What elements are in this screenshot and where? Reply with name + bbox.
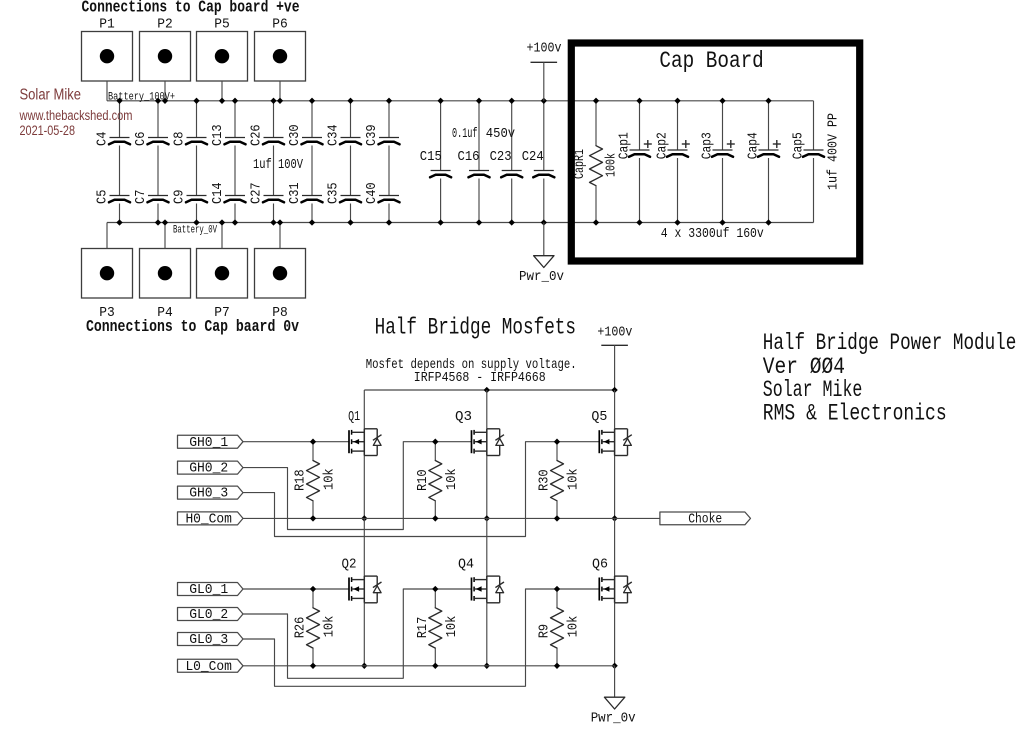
wire rail to capacitor Cap4 (768, 101, 770, 150)
wire pad x=165 to +ve bus (164, 81, 166, 101)
wire +100v rail to mosfet drains (364, 389, 614, 391)
svg-text:450v: 450v (486, 126, 515, 142)
transistor Q5 (N-MOSFET) (591, 409, 631, 455)
svg-text:C6: C6 (133, 132, 149, 146)
junction at (435.3,665.8) (433, 663, 439, 669)
svg-text:C16: C16 (458, 149, 480, 165)
svg-text:10k: 10k (444, 468, 460, 490)
capacitor C8 (171, 132, 207, 146)
svg-text:GH0_1: GH0_1 (189, 435, 228, 451)
capacitor C35 (325, 182, 361, 204)
junction at (511.7,100.8) (509, 98, 515, 104)
junction at (677.5,222.5) (675, 220, 681, 226)
capacitor C6 (133, 132, 169, 146)
capacitor C13 (210, 124, 246, 146)
capacitor C24 (522, 149, 555, 177)
wire C40 to 0v bus (388, 204, 390, 223)
svg-text:Cap5: Cap5 (791, 132, 807, 159)
net Battery_0V bus wire (107, 222, 814, 224)
wire bus to pad P3 (106, 223, 108, 249)
pad P7 (197, 249, 248, 299)
junction at (312,222.5) (309, 220, 315, 226)
wire C15 to 0v bus (440, 179, 442, 223)
svg-text:C24: C24 (522, 149, 544, 165)
junction at (222,100.8) (219, 98, 225, 104)
wire C16 to 0v bus (478, 179, 480, 223)
svg-text:P1: P1 (99, 17, 115, 33)
junction at (768.5,100.8) (766, 98, 772, 104)
pad P3 (82, 249, 133, 299)
svg-text:C13: C13 (210, 124, 226, 146)
svg-text:Cap1: Cap1 (617, 132, 633, 159)
wire drain column x=614.6 (high side) (614, 390, 616, 429)
junction at (313,665.8) (310, 663, 316, 669)
pad P8 (255, 249, 306, 299)
wire GH0_2 to Q3 gate (routed) (243, 442, 472, 530)
svg-text:GL0_3: GL0_3 (189, 632, 228, 648)
input net flag GH0_3 (178, 486, 244, 502)
resistor R18 10k (293, 442, 338, 519)
svg-text:2021-05-28: 2021-05-28 (20, 123, 76, 138)
svg-text:R17: R17 (415, 617, 431, 639)
junction at (677.5,100.8) (675, 98, 681, 104)
wire C8 to C9 (196, 146, 198, 196)
wire GH0_3 to Q5 gate (routed) (243, 442, 599, 537)
pad P6 (255, 32, 306, 82)
junction at (389,100.8) (386, 98, 392, 104)
transistor Q6 (N-MOSFET) (592, 556, 632, 602)
wire C30 to C31 (311, 146, 313, 196)
wire Cap1 to bottom rail (639, 158, 641, 223)
svg-text:C8: C8 (171, 132, 187, 146)
svg-text:C40: C40 (364, 182, 380, 204)
svg-text:Q3: Q3 (455, 409, 472, 425)
svg-text:Half Bridge Mosfets: Half Bridge Mosfets (375, 315, 576, 341)
wire C35 to 0v bus (350, 204, 352, 223)
svg-text:Battery_0V: Battery_0V (173, 224, 217, 236)
junction at (196.5,222.5) (194, 220, 200, 226)
junction at (435.3,441.7) (433, 439, 439, 445)
svg-text:C14: C14 (210, 182, 226, 204)
wire column x=273.5 (bus to C26) (273, 101, 275, 138)
junction at (486.8,665.8) (484, 663, 490, 669)
wire GH0_1 to Q1 gate (243, 441, 349, 443)
junction at (280,222.5) (277, 220, 283, 226)
+100v supply symbol at (543.8,62.3) (527, 41, 562, 101)
junction at (313,441.7) (310, 439, 316, 445)
transistor Q1 (N-MOSFET) (348, 409, 381, 455)
capacitor C5 (94, 190, 130, 204)
svg-text:C4: C4 (94, 132, 110, 146)
svg-text:P2: P2 (157, 17, 173, 33)
junction at (273.5,222.5) (271, 220, 277, 226)
junction at (479,222.5) (476, 220, 482, 226)
capacitor C30 (287, 124, 323, 146)
wire pad x=222 to +ve bus (221, 81, 223, 101)
input net flag H0_Com (178, 512, 244, 528)
capacitor C15 (420, 149, 451, 177)
wire column x=312 (bus to C30) (311, 101, 313, 138)
junction at (639.5,100.8) (637, 98, 643, 104)
junction at (235,100.8) (232, 98, 238, 104)
svg-text:R26: R26 (293, 617, 309, 639)
svg-text:H0_Com: H0_Com (185, 512, 232, 528)
wire drain column x=364.3 (low side) (363, 518, 365, 576)
wire C34 to C35 (350, 146, 352, 196)
input net flag L0_Com (178, 659, 244, 675)
wire C39 to C40 (388, 146, 390, 196)
capacitor C14 (210, 182, 246, 204)
svg-text:R18: R18 (293, 469, 309, 491)
wire bus to capacitor C15 (440, 101, 442, 171)
wire source column x=486.8 to H0_Com (486, 456, 488, 519)
capacitor C9 (171, 190, 207, 204)
svg-text:0.1uf: 0.1uf (452, 126, 478, 142)
wire C7 to 0v bus (157, 204, 159, 223)
capacitor C39 (364, 124, 400, 146)
wire Cap4 to bottom rail (768, 158, 770, 223)
svg-text:C34: C34 (325, 124, 341, 146)
input net flag GL0_1 (178, 582, 244, 598)
wire C27 to 0v bus (273, 204, 275, 223)
svg-text:C31: C31 (287, 182, 303, 204)
wire rail to capacitor Cap2 (677, 101, 679, 150)
wire source column x=614.6 to H0_Com (614, 456, 616, 519)
wire Cap5 to bottom rail (813, 158, 815, 223)
junction at (639.5,222.5) (637, 220, 643, 226)
ground symbol Pwr_0v at (614.6,697.2) (591, 697, 636, 727)
capacitor C40 (364, 182, 400, 204)
transistor Q2 (N-MOSFET) (342, 556, 382, 602)
svg-text:RMS & Electronics: RMS & Electronics (763, 401, 947, 427)
svg-text:GL0_2: GL0_2 (189, 607, 228, 623)
junction at (158,222.5) (155, 220, 161, 226)
wire drain column x=486.8 (low side) (486, 518, 488, 576)
svg-text:Q2: Q2 (342, 556, 357, 572)
wire source column x=364.3 to L0_Com (363, 603, 365, 666)
wire C26 to C27 (273, 146, 275, 196)
junction at (313,589.0) (310, 586, 316, 592)
wire bus to capacitor C23 (511, 101, 513, 171)
wire rail to capacitor Cap1 (639, 101, 641, 150)
svg-text:C39: C39 (364, 124, 380, 146)
svg-text:Solar Mike: Solar Mike (763, 377, 863, 403)
capacitor Cap2 (655, 132, 690, 159)
junction at (511.7,222.5) (509, 220, 515, 226)
junction at (486.8,518.4) (484, 516, 490, 522)
junction at (440.6,222.5) (438, 220, 444, 226)
wire bus to pad P7 (221, 223, 223, 249)
output net flag Choke (660, 511, 751, 527)
junction at (389,222.5) (386, 220, 392, 226)
capacitor C4 (94, 132, 130, 146)
input net flag GH0_2 (178, 461, 244, 477)
wire column x=158 (bus to C6) (157, 101, 159, 138)
resistor R30 10k (537, 442, 582, 519)
junction at (364.3,665.8) (362, 663, 368, 669)
svg-text:C5: C5 (94, 190, 110, 204)
junction at (479,100.8) (476, 98, 482, 104)
svg-text:C15: C15 (420, 149, 442, 165)
svg-text:Pwr_0v: Pwr_0v (519, 269, 564, 285)
svg-text:10k: 10k (566, 468, 582, 490)
pad P5 (197, 32, 248, 82)
svg-text:Cap3: Cap3 (700, 132, 716, 159)
junction at (557,518.4) (554, 516, 560, 522)
input net flag GL0_2 (178, 607, 244, 623)
wire GL0_3 to Q6 gate (routed) (243, 589, 599, 686)
capacitor Cap1 (617, 132, 652, 159)
wire column x=350.5 (bus to C34) (350, 101, 352, 138)
svg-text:C35: C35 (325, 182, 341, 204)
capacitor C7 (133, 190, 169, 204)
junction at (543.8,222.5) (541, 220, 547, 226)
svg-text:Connections to Cap board +ve: Connections to Cap board +ve (82, 0, 300, 18)
junction at (557,665.8) (554, 663, 560, 669)
junction at (435.3,518.4) (433, 516, 439, 522)
junction at (364.3,518.4) (362, 516, 368, 522)
wire source column x=364.3 to H0_Com (363, 456, 365, 519)
junction at (165,222.5) (162, 220, 168, 226)
pad P2 (140, 32, 191, 82)
capacitor Cap4 (746, 132, 781, 159)
wire drain column x=364.3 (high side) (363, 390, 365, 429)
svg-text:Cap4: Cap4 (746, 132, 762, 159)
svg-text:Half Bridge Power Module: Half Bridge Power Module (763, 330, 1017, 356)
net H0_Com wire (243, 517, 660, 519)
capacitor C26 (248, 124, 284, 146)
svg-text:R10: R10 (415, 469, 431, 491)
svg-text:Q4: Q4 (458, 556, 474, 572)
svg-text:CapR1: CapR1 (572, 149, 588, 179)
wire column x=119.5 (bus to C4) (119, 101, 121, 138)
wire C31 to 0v bus (311, 204, 313, 223)
wire pad x=107 to +ve bus (106, 81, 108, 101)
svg-text:Q1: Q1 (348, 409, 360, 425)
svg-text:www.thebackshed.com: www.thebackshed.com (19, 108, 133, 123)
svg-text:Ver ØØ4: Ver ØØ4 (763, 354, 845, 380)
junction at (722.5,222.5) (720, 220, 726, 226)
transistor Q3 (N-MOSFET) (455, 409, 504, 455)
svg-text:Pwr_0v: Pwr_0v (591, 711, 636, 727)
svg-text:4 x 3300uf 160v: 4 x 3300uf 160v (661, 226, 764, 242)
capacitor C16 (458, 149, 490, 177)
capacitor C27 (248, 182, 284, 204)
wire GL0_2 to Q4 gate (routed) (243, 589, 472, 678)
junction at (486.8,390) (484, 387, 490, 393)
input net flag GL0_3 (178, 632, 244, 648)
wire C5 to 0v bus (119, 204, 121, 223)
net Battery_100V+ bus wire (107, 100, 814, 102)
svg-text:10k: 10k (444, 616, 460, 638)
svg-text:10k: 10k (322, 468, 338, 490)
svg-text:C30: C30 (287, 124, 303, 146)
transistor Q4 (N-MOSFET) (458, 556, 504, 602)
junction at (350.5,222.5) (348, 220, 354, 226)
wire C24 to 0v bus (543, 179, 545, 223)
wire C23 to 0v bus (511, 179, 513, 223)
junction at (196.5,100.8) (194, 98, 200, 104)
junction at (543.8,100.8) (541, 98, 547, 104)
svg-text:10k: 10k (322, 616, 338, 638)
ground symbol Pwr_0v at (543.8,255.7) (519, 256, 564, 286)
svg-text:C7: C7 (133, 190, 149, 204)
junction at (768.5,222.5) (766, 220, 772, 226)
svg-text:1uf 400V PP: 1uf 400V PP (825, 113, 841, 190)
svg-text:R9: R9 (537, 624, 553, 638)
svg-text:C9: C9 (171, 190, 187, 204)
wire GL0_1 to Q2 gate (243, 588, 349, 590)
Cap Board outline box (571, 43, 859, 261)
wire 0v bus to ground (543, 223, 545, 256)
wire C14 to 0v bus (234, 204, 236, 223)
junction at (722.5,100.8) (720, 98, 726, 104)
junction at (557,589.0) (554, 586, 560, 592)
svg-text:Q6: Q6 (592, 556, 608, 572)
+100v supply symbol at (614.6,345.3) (597, 324, 632, 390)
wire bus to capacitor C16 (478, 101, 480, 171)
resistor R9 10k (537, 589, 582, 666)
junction at (596,222.5) (593, 220, 599, 226)
svg-text:Cap Board: Cap Board (659, 48, 763, 74)
wire rail to capacitor Cap3 (722, 101, 724, 150)
wire C9 to 0v bus (196, 204, 198, 223)
junction at (614.6,390) (612, 387, 618, 393)
svg-text:GH0_2: GH0_2 (189, 461, 228, 477)
capacitor C31 (287, 182, 323, 204)
svg-text:10k: 10k (566, 616, 582, 638)
net L0_Com wire (243, 665, 615, 667)
svg-text:Solar Mike: Solar Mike (20, 87, 82, 104)
wire rail to capacitor Cap5 (813, 101, 815, 150)
capacitor Cap3 (700, 132, 735, 159)
wire Cap2 to bottom rail (677, 158, 679, 223)
junction at (313,518.4) (310, 516, 316, 522)
wire bus to capacitor C24 (543, 101, 545, 171)
svg-text:C23: C23 (490, 149, 512, 165)
wire source column x=614.6 to L0_Com (614, 603, 616, 666)
resistor R17 10k (415, 589, 460, 666)
wire C6 to C7 (157, 146, 159, 196)
junction at (435.3,589.0) (433, 586, 439, 592)
svg-text:P6: P6 (272, 17, 288, 33)
capacitor C23 (490, 149, 523, 177)
pad P1 (82, 32, 133, 82)
svg-text:Choke: Choke (688, 511, 722, 527)
input net flag GH0_1 (178, 435, 244, 451)
resistor CapR1 100k (572, 101, 620, 223)
resistor R26 10k (293, 589, 338, 666)
junction at (440.6,100.8) (438, 98, 444, 104)
wire drain column x=614.6 (low side) (614, 518, 616, 576)
junction at (614.6,518.4) (612, 516, 618, 522)
capacitor Cap5 (791, 132, 825, 159)
junction at (312,100.8) (309, 98, 315, 104)
svg-text:+100v: +100v (527, 41, 562, 57)
svg-text:P5: P5 (214, 17, 230, 33)
junction at (119.5,222.5) (117, 220, 123, 226)
svg-text:Cap2: Cap2 (655, 132, 671, 159)
junction at (119.5,100.8) (117, 98, 123, 104)
wire drain column x=486.8 (high side) (486, 390, 488, 429)
wire source column x=486.8 to L0_Com (486, 603, 488, 666)
capacitor C34 (325, 124, 361, 146)
svg-text:GH0_3: GH0_3 (189, 486, 228, 502)
svg-text:R30: R30 (537, 469, 553, 491)
junction at (222,222.5) (219, 220, 225, 226)
junction at (596,100.8) (593, 98, 599, 104)
pad P4 (140, 249, 191, 299)
wire bus to pad P4 (164, 223, 166, 249)
junction at (614.6,665.8) (612, 663, 618, 669)
junction at (273.5,100.8) (271, 98, 277, 104)
svg-text:C27: C27 (248, 182, 264, 204)
svg-text:L0_Com: L0_Com (185, 659, 232, 675)
svg-text:1uf 100V: 1uf 100V (253, 157, 303, 173)
junction at (235,222.5) (232, 220, 238, 226)
svg-text:C26: C26 (248, 124, 264, 146)
junction at (158,100.8) (155, 98, 161, 104)
junction at (557,441.7) (554, 439, 560, 445)
svg-text:Q5: Q5 (591, 409, 607, 425)
junction at (165,100.8) (162, 98, 168, 104)
svg-text:Connections to Cap baard 0v: Connections to Cap baard 0v (86, 318, 299, 337)
wire bus to pad P8 (279, 223, 281, 249)
resistor R10 10k (415, 442, 460, 519)
wire C4 to C5 (119, 146, 121, 196)
junction at (350.5,100.8) (348, 98, 354, 104)
wire column x=389 (bus to C39) (388, 101, 390, 138)
wire column x=235 (bus to C13) (234, 101, 236, 138)
svg-text:IRFP4568 - IRFP4668: IRFP4568 - IRFP4668 (414, 370, 546, 386)
wire L0_Com to ground (614, 666, 616, 697)
svg-text:GL0_1: GL0_1 (189, 582, 228, 598)
wire pad x=280 to +ve bus (279, 81, 281, 101)
svg-text:+100v: +100v (597, 324, 632, 340)
wire C13 to C14 (234, 146, 236, 196)
junction at (280,100.8) (277, 98, 283, 104)
wire column x=196.5 (bus to C8) (196, 101, 198, 138)
wire Cap3 to bottom rail (722, 158, 724, 223)
